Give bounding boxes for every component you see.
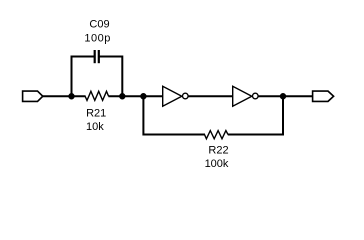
- svg-text:10k: 10k: [86, 121, 104, 133]
- svg-text:100k: 100k: [205, 158, 229, 170]
- svg-text:C09: C09: [89, 19, 109, 31]
- svg-text:100p: 100p: [84, 33, 110, 45]
- svg-text:R21: R21: [86, 107, 106, 119]
- svg-text:R22: R22: [208, 145, 228, 157]
